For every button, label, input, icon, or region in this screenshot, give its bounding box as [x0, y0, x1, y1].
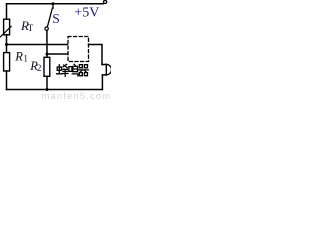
- terminal +5V circle: [102, 2, 105, 5]
- char ming: [69, 64, 78, 76]
- resistor R1 body: [4, 53, 10, 71]
- node R2 top junction: [46, 53, 49, 56]
- wire left rail lower: [6, 71, 8, 90]
- wire left rail middle: [6, 35, 8, 53]
- svg-text:2: 2: [37, 63, 42, 73]
- char feng: [57, 64, 68, 76]
- label buzzer 蜂鸣器: [57, 64, 89, 76]
- svg-text:manfen5.com: manfen5.com: [42, 91, 112, 100]
- resistor R2 body: [44, 57, 50, 76]
- thermistor slash: [0, 26, 11, 36]
- resistor RT body: [4, 19, 10, 35]
- svg-text:R: R: [14, 49, 23, 63]
- wire middle branch to module: [7, 44, 69, 46]
- module dashed box: [68, 37, 89, 62]
- svg-text:S: S: [52, 11, 60, 26]
- svg-text:+5V: +5V: [74, 6, 99, 21]
- wire bottom rail: [7, 89, 103, 91]
- char qi: [79, 65, 89, 76]
- wire left rail upper: [6, 4, 8, 19]
- switch S stub: [52, 4, 54, 9]
- switch S blade: [47, 8, 52, 27]
- buzzer body: [105, 64, 107, 75]
- node bottom junction: [46, 88, 49, 91]
- wire buzzer to bottom rail: [101, 75, 103, 90]
- svg-text:1: 1: [23, 53, 28, 63]
- wire top rail: [7, 3, 104, 5]
- node switch top: [52, 2, 55, 5]
- switch S contact circle: [45, 27, 48, 30]
- label RT: [14, 6, 99, 73]
- wire module output: [89, 45, 103, 65]
- node left junction: [5, 43, 8, 46]
- wire R2 to bottom rail: [46, 76, 48, 89]
- buzzer lead bottom: [102, 74, 106, 76]
- wire node down to R2: [46, 54, 48, 57]
- buzzer lead top: [102, 64, 106, 66]
- wire switch to node: [46, 30, 48, 54]
- svg-text:T: T: [28, 23, 34, 33]
- wire node to module lower input: [47, 53, 68, 55]
